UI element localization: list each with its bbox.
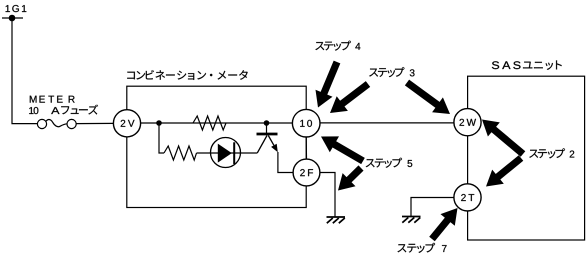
transistor Q1 emitter arrowhead — [271, 144, 278, 153]
wire 2T to ground G2 — [411, 198, 454, 217]
SAS unit box — [468, 76, 585, 240]
arrow step 4 — [316, 62, 338, 108]
wire branch down from junction A — [159, 123, 164, 153]
label step 4 — [315, 41, 360, 51]
wire 2V to node 10 — [141, 122, 293, 124]
label 10 A fuse — [29, 105, 98, 115]
arrow step 7 — [432, 208, 458, 239]
wire 2F to ground G1 — [320, 173, 335, 217]
transistor Q1 base lead from junction B — [266, 123, 268, 134]
wire 1G1 down to fuse — [12, 18, 37, 124]
transistor Q1 emitter diagonal — [268, 136, 274, 146]
junction dot A — [156, 120, 162, 126]
label 1G1 — [6, 5, 27, 12]
transistor Q1 base bar — [257, 133, 278, 136]
arrow step 2 down — [486, 158, 521, 187]
wire fuse to 2V — [76, 122, 113, 124]
diode D1 triangle — [218, 144, 232, 163]
label METER — [30, 96, 75, 103]
label combination meter — [127, 70, 247, 80]
label step 7 — [398, 243, 447, 253]
arrow step 5 down — [338, 168, 361, 191]
wire node 10 to node 2W — [320, 122, 454, 124]
wire 1G1 terminal bar — [2, 17, 23, 19]
connector 2W — [454, 109, 481, 136]
resistor R1 — [193, 116, 226, 130]
label SAS unit — [492, 60, 562, 69]
diode D1 cathode bar — [233, 142, 235, 164]
arrow step 3 right — [407, 83, 450, 115]
wire emitter to 2F — [278, 152, 293, 173]
combination meter box — [127, 86, 306, 207]
arrow step 3 left — [330, 84, 368, 113]
arrow step 2 up — [482, 120, 523, 155]
diode D1 circle — [211, 138, 241, 168]
connector 2V — [113, 110, 140, 137]
junction dot B — [264, 120, 270, 126]
connector 2F — [293, 159, 320, 186]
wire R2 to diode and through to transistor — [197, 152, 258, 154]
label step 2 — [529, 148, 574, 158]
ground G1 — [327, 217, 346, 223]
arrow step 5 up — [321, 136, 363, 161]
label step 3 — [369, 67, 414, 77]
connector 2T — [454, 184, 481, 211]
resistor R2 — [164, 146, 197, 160]
fuse F1 METER 10A — [37, 119, 76, 128]
ground G2 — [402, 217, 421, 223]
wire node 10 to node 2F — [305, 137, 307, 160]
transistor Q1 collector diagonal — [257, 136, 267, 153]
connector 10 — [292, 109, 320, 137]
junction dot 1G1 — [9, 15, 16, 22]
label step 5 — [366, 158, 412, 168]
